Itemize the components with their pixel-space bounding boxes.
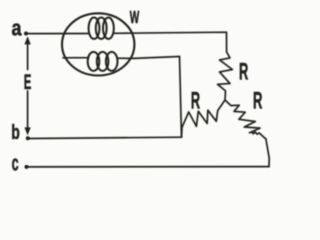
inner vertical wire down to b-wire	[180, 57, 182, 138]
terminal a dot	[24, 32, 28, 36]
wattmeter W circle	[62, 13, 134, 75]
wire wattmeter to top-right corner	[114, 32, 227, 52]
voltage coil (bottom) stub right + wire to inner corner	[118, 57, 180, 59]
E source arrow down	[27, 91, 29, 133]
E source arrow up	[27, 39, 29, 70]
svg-text:R: R	[191, 87, 200, 114]
svg-text:R: R	[253, 88, 262, 115]
svg-text:a: a	[12, 16, 23, 41]
wire c to bottom-right corner	[28, 166, 269, 168]
voltage coil (bottom) loop 3	[106, 52, 118, 71]
right vertical wire (c side)	[266, 139, 269, 167]
svg-text:b: b	[11, 121, 20, 144]
terminal b dot	[26, 136, 30, 140]
svg-text:R: R	[239, 58, 248, 85]
resistor R3 (right diagonal, node to c corner)	[225, 100, 266, 139]
voltage coil (bottom) loop 1	[88, 52, 100, 71]
wire a to wattmeter (top)	[28, 33, 89, 35]
svg-text:c: c	[12, 150, 19, 175]
voltage coil (bottom) stub left	[63, 57, 89, 59]
svg-text:W: W	[130, 7, 140, 27]
terminal c dot	[25, 165, 29, 169]
resistor R1 (vertical, top right)	[218, 52, 233, 100]
node (star point)	[224, 99, 226, 101]
current coil (top) loop 3	[103, 18, 114, 39]
current coil (top) loop 1	[89, 18, 100, 39]
current coil (top) loop 2	[96, 18, 107, 39]
voltage coil (bottom) loop 2	[97, 52, 109, 71]
wire b to inner corner	[30, 137, 182, 138]
resistor R2 (left diagonal, node to b corner)	[182, 100, 226, 137]
